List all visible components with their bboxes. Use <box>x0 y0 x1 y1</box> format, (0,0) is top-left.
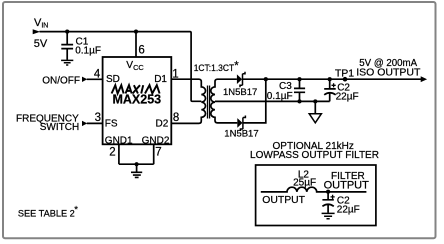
wire: pin 3 FS input <box>87 122 103 124</box>
svg-text:ISO OUTPUT: ISO OUTPUT <box>356 67 421 79</box>
svg-text:4: 4 <box>94 69 101 81</box>
iso ground triangle <box>309 114 321 123</box>
arrow output rail <box>421 76 427 82</box>
node: filter output junction <box>326 190 330 194</box>
capacitor C2 (filter, polarized) <box>322 192 333 213</box>
arrow ON/OFF <box>82 77 87 82</box>
wire: pin 7 gnd <box>153 144 155 164</box>
transformer 1CT:1.3CT secondary winding <box>211 79 238 123</box>
node: pin6 junction <box>134 30 138 34</box>
svg-text:6: 6 <box>138 45 144 57</box>
svg-text:2: 2 <box>109 147 115 159</box>
svg-text:*: * <box>74 204 78 215</box>
svg-text:0.1µF: 0.1µF <box>75 46 101 57</box>
svg-text:GND2: GND2 <box>142 135 170 146</box>
svg-text:OUTPUT: OUTPUT <box>262 195 305 206</box>
wire: VIN top rail to VCC feed corner <box>40 32 202 102</box>
svg-text:D2: D2 <box>156 118 169 129</box>
svg-text:8: 8 <box>173 112 179 124</box>
node: riser joins output rail <box>264 77 268 81</box>
node: C3 top <box>297 77 301 81</box>
op-amp/IC MAX253 body <box>103 57 172 144</box>
capacitor C1 <box>61 32 73 60</box>
node: TP1 test point <box>343 77 348 82</box>
node: C2 top <box>328 77 332 81</box>
svg-text:SWITCH: SWITCH <box>40 122 79 133</box>
wire: iso ground branch <box>314 101 316 113</box>
diode 1N5B17 top rectifier <box>237 72 245 88</box>
svg-text:LOWPASS OUTPUT FILTER: LOWPASS OUTPUT FILTER <box>250 150 379 161</box>
svg-text:GND1: GND1 <box>105 135 133 146</box>
node: iso ground branch <box>313 99 317 103</box>
plus sign C2 filter <box>331 195 335 199</box>
maxim logo <box>112 85 160 93</box>
svg-text:22µF: 22µF <box>337 204 360 215</box>
wire: pin 2 gnd <box>118 144 120 164</box>
plus sign C2 main <box>332 83 336 87</box>
filter box <box>256 165 376 226</box>
arrow FREQUENCY SWITCH <box>82 121 87 126</box>
svg-text:MAX253: MAX253 <box>112 92 161 106</box>
svg-text:1N5B17: 1N5B17 <box>223 87 257 98</box>
svg-text:OUTPUT: OUTPUT <box>324 180 370 192</box>
svg-text:D1: D1 <box>154 74 167 85</box>
wire: top diode output rail <box>242 78 422 80</box>
wire: pin 4 SD input <box>87 78 103 80</box>
svg-text:5V: 5V <box>34 38 48 50</box>
svg-text:0.1µF: 0.1µF <box>267 91 293 102</box>
wire: gnd bus under IC <box>119 164 154 171</box>
transformer core <box>208 86 210 119</box>
svg-text:3: 3 <box>95 112 101 124</box>
diode 1N5B17 bottom rectifier <box>237 116 245 132</box>
transformer 1CT:1.3CT primary winding <box>171 79 205 123</box>
wire: bottom diode to riser <box>243 79 266 123</box>
svg-text:TP1: TP1 <box>335 67 354 79</box>
svg-text:1N5B17: 1N5B17 <box>224 128 258 139</box>
wire: pin6 VCC drop <box>135 32 137 57</box>
svg-text:25µF: 25µF <box>293 178 316 189</box>
ground (IC) <box>131 172 142 177</box>
wire: secondary center tap to C2 <box>215 100 330 102</box>
capacitor C2 (main, polarized) <box>324 79 336 101</box>
svg-text:1: 1 <box>172 68 178 80</box>
node: IC ground junction <box>135 162 139 166</box>
ground (filter) <box>322 213 335 218</box>
ground (C1) <box>61 60 73 65</box>
svg-text:22µF: 22µF <box>336 92 359 103</box>
svg-text:7: 7 <box>155 147 161 159</box>
svg-text:SD: SD <box>106 74 120 85</box>
svg-text:ON/OFF: ON/OFF <box>42 75 80 86</box>
svg-text:SEE TABLE 2: SEE TABLE 2 <box>18 208 75 218</box>
node: C1 junction <box>65 30 69 34</box>
svg-text:*: * <box>234 60 239 72</box>
node: C3 bottom <box>297 99 301 103</box>
input arrow VIN <box>33 29 41 34</box>
inductor L2 and filter wire <box>261 187 367 192</box>
svg-text:1CT:1.3CT: 1CT:1.3CT <box>194 63 235 73</box>
svg-text:FS: FS <box>105 118 118 129</box>
capacitor C3 <box>294 79 305 101</box>
